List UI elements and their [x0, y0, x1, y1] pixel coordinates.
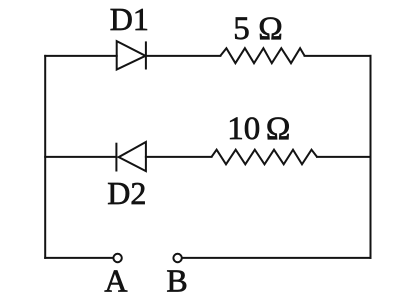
diode D1 — [117, 41, 146, 69]
svg-text:A: A — [104, 262, 127, 298]
svg-text:D2: D2 — [107, 175, 146, 211]
svg-text:10: 10 — [227, 111, 260, 147]
wire terminal B to bottom right — [183, 257, 371, 259]
resistor 10 ohm — [212, 150, 318, 165]
svg-text:5: 5 — [233, 11, 250, 47]
wire 5-ohm resistor to top right — [305, 55, 371, 57]
label 5 ohm — [233, 11, 283, 47]
wire left vertical — [44, 56, 46, 258]
terminal B — [173, 254, 181, 262]
svg-text:D1: D1 — [110, 1, 149, 37]
wire top left to D1 — [45, 55, 117, 57]
wire 10-ohm resistor to right vertical — [317, 156, 371, 158]
wire right vertical — [370, 56, 372, 258]
wire middle left to D2 — [45, 156, 116, 158]
svg-text:Ω: Ω — [266, 111, 291, 147]
svg-text:Ω: Ω — [258, 11, 283, 47]
wire D2 to 10-ohm resistor — [146, 156, 212, 158]
wire bottom left to terminal A — [45, 257, 113, 259]
resistor 5 ohm — [220, 48, 304, 63]
diode D2 — [116, 142, 145, 172]
terminal A — [113, 254, 121, 262]
svg-text:B: B — [166, 262, 187, 298]
wire D1 to 5-ohm resistor — [146, 55, 220, 57]
label 10 ohm — [227, 111, 290, 147]
